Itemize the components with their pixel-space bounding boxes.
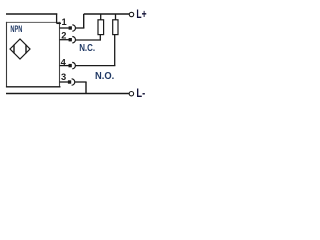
svg-text:N.C.: N.C. (79, 43, 95, 54)
svg-text:N.O.: N.O. (95, 71, 114, 82)
svg-text:1: 1 (62, 17, 67, 27)
svg-text:L+: L+ (136, 9, 146, 21)
svg-text:4: 4 (61, 57, 67, 67)
svg-text:L-: L- (136, 88, 145, 100)
svg-text:3: 3 (61, 72, 66, 82)
svg-text:NPN: NPN (10, 24, 22, 34)
svg-text:2: 2 (61, 31, 66, 41)
